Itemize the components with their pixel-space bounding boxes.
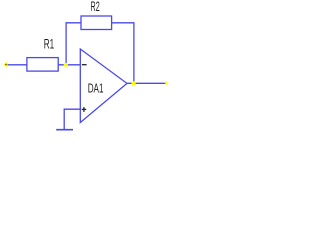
- svg-text:R1: R1: [44, 36, 55, 52]
- wire R2 to output node: [112, 23, 134, 84]
- pin minus (inverting input marker): [82, 64, 87, 66]
- wire input to R1: [8, 64, 28, 66]
- wire output: [127, 82, 166, 84]
- resistor R1: [27, 58, 58, 72]
- wire non-inverting input to ground: [64, 109, 80, 130]
- resistor R2: [81, 16, 112, 30]
- node input terminal: [3, 62, 7, 68]
- pin plus (non-inverting input marker): [82, 107, 87, 112]
- wire junction up to R2: [66, 23, 81, 65]
- wire R1 to op-amp input: [58, 64, 80, 66]
- svg-text:R2: R2: [91, 0, 100, 14]
- svg-text:DA1: DA1: [88, 80, 104, 95]
- node junction dot at R1 output: [64, 63, 68, 67]
- node output junction dot: [132, 81, 136, 85]
- ground: [56, 129, 73, 131]
- node output terminal: [165, 82, 167, 85]
- op-amp DA1: [80, 49, 127, 123]
